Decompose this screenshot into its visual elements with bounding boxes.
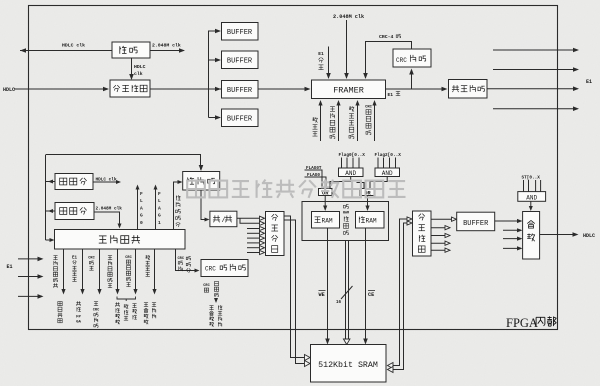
svg-text:AND: AND <box>382 170 393 177</box>
svg-text:FPGA: FPGA <box>506 316 538 330</box>
svg-text:E1: E1 <box>7 264 13 270</box>
svg-text:HDLC: HDLC <box>134 64 146 70</box>
svg-text:16: 16 <box>336 301 342 305</box>
svg-text:FP: FP <box>76 316 81 320</box>
svg-text:2.048M clk: 2.048M clk <box>152 43 181 49</box>
svg-text:E1: E1 <box>388 92 394 98</box>
svg-text:/: / <box>222 217 226 225</box>
svg-text:RAM: RAM <box>322 217 333 224</box>
svg-text:CRC: CRC <box>203 284 210 288</box>
svg-text:CE: CE <box>368 292 374 298</box>
svg-text:G: G <box>140 213 143 219</box>
svg-text:L: L <box>158 198 161 204</box>
svg-text:CRC: CRC <box>396 57 407 64</box>
svg-text:BUFFER: BUFFER <box>227 116 253 124</box>
svg-text:Flag0[0..X: Flag0[0..X <box>339 153 366 158</box>
svg-text:RAM: RAM <box>366 217 377 224</box>
svg-text:G: G <box>158 213 161 219</box>
svg-text:CRC: CRC <box>365 106 373 110</box>
svg-text:L: L <box>140 198 143 204</box>
svg-text:Flag2[0..X: Flag2[0..X <box>375 153 402 158</box>
svg-text:E1: E1 <box>318 51 324 57</box>
svg-text:RAM: RAM <box>343 212 349 216</box>
svg-text:BUFFER: BUFFER <box>227 29 253 37</box>
svg-text:HDLC: HDLC <box>583 233 595 239</box>
svg-text:CRC: CRC <box>125 256 132 260</box>
svg-text:BUFFER: BUFFER <box>227 58 253 66</box>
svg-text:clk: clk <box>134 71 143 77</box>
svg-text:AND: AND <box>345 170 356 177</box>
svg-text:A: A <box>140 205 143 211</box>
svg-text:512Kbit SRAM: 512Kbit SRAM <box>318 360 378 370</box>
svg-text:2.048M clk: 2.048M clk <box>96 207 123 212</box>
svg-text:F: F <box>158 191 161 197</box>
svg-text:BUFFER: BUFFER <box>463 220 489 228</box>
svg-text:F: F <box>140 191 143 197</box>
svg-text:CRC: CRC <box>88 257 95 261</box>
svg-text:FRAMER: FRAMER <box>333 86 364 96</box>
svg-text:AND: AND <box>526 194 537 201</box>
svg-text:HDLC: HDLC <box>3 87 15 93</box>
svg-text:CRC: CRC <box>205 266 216 273</box>
svg-text:CRC: CRC <box>178 257 185 261</box>
svg-text:HDLC clk: HDLC clk <box>62 43 85 49</box>
svg-text:CRC-4: CRC-4 <box>379 34 394 40</box>
svg-text:2.048M clk: 2.048M clk <box>333 14 364 20</box>
svg-text:WE: WE <box>319 292 325 298</box>
svg-text:CRC: CRC <box>93 309 100 313</box>
svg-text:A: A <box>158 205 161 211</box>
svg-text:E1: E1 <box>586 79 592 85</box>
svg-text:E1: E1 <box>72 257 78 261</box>
svg-text:0: 0 <box>140 220 143 226</box>
svg-text:ST[0..X: ST[0..X <box>522 176 541 181</box>
svg-text:BUFFER: BUFFER <box>227 87 253 95</box>
svg-text:1: 1 <box>158 220 161 226</box>
svg-text:GA: GA <box>76 321 81 325</box>
